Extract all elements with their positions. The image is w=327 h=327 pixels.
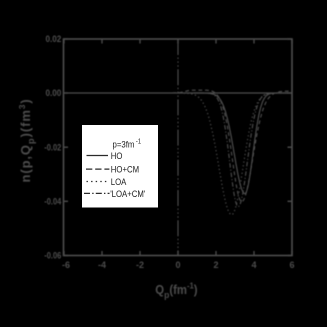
y axis title n(p,Qp)(fm3) [17,98,37,182]
svg-text:0.02: 0.02 [46,34,62,44]
axes frame [64,39,293,256]
curve HO (solid) [193,93,292,194]
x tick labels [62,260,295,270]
x=0 dash-dot vertical gridline [177,39,179,256]
svg-text:0.00: 0.00 [46,88,62,98]
x axis major ticks top [64,39,292,44]
svg-text:-0.06: -0.06 [44,251,61,261]
svg-text:HO: HO [111,150,123,161]
curve LOA (dotted) [184,93,292,215]
legend title p=3fm-1 [113,138,142,149]
legend label HO+CM [111,164,139,175]
legend box [82,125,158,208]
svg-text:-2: -2 [136,260,144,270]
legend label LOA [111,176,127,187]
x axis major ticks bottom [64,251,292,256]
svg-text:-0.04: -0.04 [44,197,61,207]
x axis title Qp(fm-1) [155,281,197,300]
curve HO+CM (dashed) [172,90,292,202]
svg-text:HO+CM: HO+CM [111,164,139,175]
svg-text:0: 0 [175,260,180,270]
legend sample LOA+CM dash-dot [84,192,110,194]
legend sample HO+CM dashed [86,168,109,170]
svg-text:LOA: LOA [111,176,127,187]
curve LOA+CM (dash-dot) [189,93,292,207]
svg-text:-0.02: -0.02 [44,142,61,152]
legend label HO [111,150,123,161]
legend sample LOA dotted [87,181,108,183]
svg-text:4: 4 [251,260,256,270]
y tick labels [44,34,61,261]
y axis major ticks left [64,39,69,256]
svg-text:6: 6 [289,260,294,270]
svg-text:'LOA+CM': 'LOA+CM' [110,188,145,199]
zero axis line y=0 [64,92,293,94]
svg-text:-6: -6 [62,260,70,270]
svg-text:-4: -4 [98,260,106,270]
y axis major ticks right [288,39,293,256]
svg-text:2: 2 [213,260,218,270]
legend sample HO solid [87,155,109,157]
legend label LOA+CM [110,188,145,199]
